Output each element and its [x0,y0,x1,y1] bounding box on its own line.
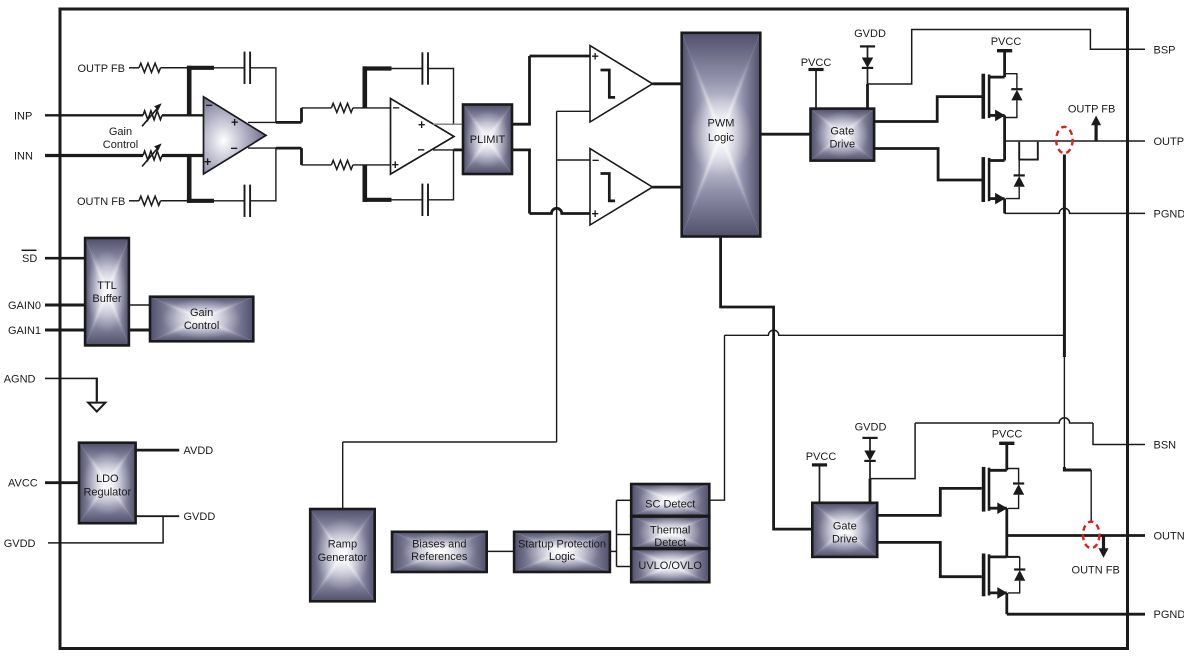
pin label PGND (top) [1154,208,1184,220]
node bar inverting input U1 [187,66,214,116]
wire Q4 drain extension [1007,556,1020,558]
pin label OUTP FB [78,63,125,75]
wire bottom feedback U1 [214,200,245,202]
svg-text:Gate: Gate [833,521,857,533]
wire PWM Logic to Gate Drive 2 route [721,237,813,530]
wire C2 to U1 output [250,148,276,201]
block Gate Drive (high/low side, OUTN) [812,503,877,557]
transistor Q2 (low-side NMOS, OUTP) [983,157,1005,204]
wire INN [45,154,143,157]
svg-text:Drive: Drive [829,139,855,151]
svg-text:GVDD: GVDD [4,538,36,550]
variable resistor INN (gain control) [142,143,162,166]
wire top feedback U1 [214,67,245,69]
capacitor C1 (U1 top feedback) [245,52,251,84]
resistor R4 (interstage bottom) [331,160,353,169]
svg-text:+: + [231,115,238,129]
svg-text:AVCC: AVCC [8,478,38,490]
wire D1 to gate drive 1 [867,68,869,109]
wire PGND top [1005,208,1145,213]
svg-text:+: + [204,155,211,169]
svg-text:BSN: BSN [1154,440,1177,452]
label OUTN FB (sense) [1072,565,1120,577]
pin label GAIN1 [8,325,41,337]
wire AVCC [45,481,80,484]
wire PWM Logic to Gate Drive 1 [760,133,811,136]
wire bootstrap BSP route [868,30,1146,85]
svg-text:SD: SD [22,253,37,265]
wire ramp to comparator A [557,110,599,112]
wire bottom feedback U2 [392,199,423,201]
block SC Detect [631,484,709,517]
resistor OUTP FB [139,63,161,72]
wire AGND [45,378,97,402]
pin label GVDD (left) [4,538,36,550]
svg-text:PVCC: PVCC [992,429,1023,441]
label PVCC (gate drive 2) [806,451,837,463]
capacitor C3 (U2 top feedback) [422,52,428,84]
pin label INN [14,151,33,163]
wire node OUTN [1007,534,1145,537]
svg-text:Gate: Gate [830,126,854,138]
wire C4 to U2 output [428,150,454,200]
wire gate drive 1 low output [874,149,981,181]
svg-text:OUTP: OUTP [1154,136,1184,148]
pin label BSP [1154,44,1176,56]
svg-text:GVDD: GVDD [854,28,886,40]
svg-text:OUTP FB: OUTP FB [78,63,125,75]
wire comparator A output [653,82,683,85]
svg-text:Biases and: Biases and [412,538,466,550]
svg-text:PLIMIT: PLIMIT [470,134,506,146]
svg-text:PVCC: PVCC [991,36,1022,48]
variable resistor INP (gain control) [142,103,162,126]
wire AVDD output [136,449,180,452]
block Biases and References [392,532,487,572]
wire to R3 [302,107,332,109]
comparator U4 (PWM comparator B) [590,149,653,225]
block TTL Buffer [85,238,129,345]
svg-text:INN: INN [14,151,33,163]
svg-text:SC Detect: SC Detect [645,498,695,510]
pin label OUTN [1154,531,1184,543]
wire U2 output+ to PLIMIT [433,123,464,125]
wire PGND bottom [1007,613,1145,616]
supply PVCC Q3 [999,443,1014,470]
label AVDD [184,445,214,457]
label GVDD (bottom) [855,421,887,433]
block UVLO/OVLO [631,516,709,582]
wire sense jog [1064,467,1091,470]
svg-text:−: − [393,101,400,115]
supply GVDD bottom [862,438,877,451]
wire ramp to comparator B [557,159,599,161]
pin label PGND (bottom) [1154,609,1184,621]
svg-text:Logic: Logic [549,551,576,563]
block PLIMIT [463,105,512,175]
wire OUTP FB to input node [161,67,188,69]
svg-text:−: − [231,141,238,155]
svg-text:Gain: Gain [190,307,213,319]
block LDO Regulator [79,443,136,524]
pin label AVCC [8,478,38,490]
svg-text:Control: Control [184,320,219,332]
wire TTL to Gain Control upper [129,304,151,306]
svg-text:OUTN FB: OUTN FB [1072,565,1120,577]
svg-text:PWM: PWM [708,118,735,130]
label OUTP FB (sense) [1068,104,1115,116]
svg-text:AGND: AGND [4,373,36,385]
label PVCC (high-side FET Q1) [991,36,1022,48]
wire PLIMIT out top [512,56,599,124]
label GVDD (top) [854,28,886,40]
wire top feedback U2 [392,68,423,70]
svg-text:−: − [206,99,213,113]
wire sense drop to OUTN [1090,470,1092,523]
label PVCC (gate drive 1) [801,57,832,69]
wire GAIN1 [45,329,86,332]
capacitor C2 (U1 bottom feedback) [245,185,251,217]
wire Q4 source to PGND [1005,593,1008,614]
svg-text:OUTN: OUTN [1154,531,1184,543]
comparator U3 (PWM comparator A) [590,46,653,122]
pin label INP [14,110,32,122]
svg-text:GVDD: GVDD [184,511,216,523]
op-amp U2 (second integrator stage) [391,99,455,175]
wire INN to op-amp [162,154,204,157]
svg-text:GAIN1: GAIN1 [8,325,41,337]
wire OUTN FB to input node [161,200,188,202]
supply PVCC gate drive 1 [808,70,823,109]
supply GVDD top [860,46,875,57]
label Gain Control (input stage) [103,126,138,151]
wire OUTN to Q4 drain [1005,536,1008,557]
resistor OUTN FB [139,196,161,205]
pin label OUTP [1154,136,1184,148]
svg-text:+: + [392,158,399,172]
svg-text:AVDD: AVDD [184,445,214,457]
capacitor C4 (U2 bottom feedback) [422,184,428,216]
svg-text:Logic: Logic [708,132,735,144]
test point ellipse OUTN [1083,522,1099,548]
wire comparator B output [653,186,683,189]
supply PVCC gate drive 2 [812,465,827,503]
transistor Q3 (high-side NMOS, OUTN) [984,467,1008,514]
svg-text:TTL: TTL [97,280,117,292]
wire SD [45,257,86,260]
body diode Q4 [1008,557,1025,593]
svg-text:Gain: Gain [109,126,132,138]
svg-text:PGND: PGND [1154,208,1184,220]
pin label SD [22,250,38,265]
svg-text:Regulator: Regulator [83,487,131,499]
pin label GAIN0 [8,300,41,312]
svg-text:PGND: PGND [1154,609,1184,621]
wire biases to startup [487,550,515,552]
wire gate drive 1 high output [874,97,981,122]
node bar non-inverting input U2 [363,165,392,202]
wire ramp vertical [556,111,558,442]
svg-text:Drive: Drive [832,534,858,546]
wire OUTN FB lead [129,200,139,202]
svg-text:PVCC: PVCC [801,57,832,69]
svg-text:GVDD: GVDD [855,421,887,433]
ground symbol AGND [88,403,105,412]
body diode Q3 [1007,469,1024,509]
wire D2 to gate drive 2 [869,461,871,503]
svg-text:UVLO/OVLO: UVLO/OVLO [638,560,702,572]
wire startup to detect bracket [610,550,617,552]
wire node OUTP [1005,140,1145,142]
pin label AGND [4,373,36,385]
block Ramp Generator [310,509,375,601]
label GVDD (LDO output) [184,511,216,523]
block Thermal Detect [631,516,709,549]
block Gate Drive (high/low side, OUTP) [811,109,875,161]
wire ramp drop to Ramp Generator [342,442,344,510]
transistor Q4 (low-side NMOS, OUTN) [984,554,1008,599]
wire detect bracket [617,500,632,566]
wire C1 to U1 output [250,68,276,123]
svg-text:+: + [592,207,599,221]
svg-text:−: − [418,143,425,157]
test point ellipse OUTP [1056,127,1072,153]
diode D2 (GVDD bootstrap) [864,451,875,461]
svg-text:Thermal: Thermal [650,525,690,537]
svg-text:BSP: BSP [1154,44,1176,56]
wire INP to op-amp [162,114,204,116]
wire GAIN0 [45,304,86,307]
wire OUTN FB sense arrow [1099,536,1109,558]
svg-text:OUTP FB: OUTP FB [1068,104,1115,116]
wire gate drive 2 high output [877,488,982,515]
node bar non-inverting input U1 [187,156,214,203]
wire bootstrap BSN route [870,418,1145,479]
pin label BSN [1154,440,1177,452]
svg-text:Control: Control [103,139,138,151]
label PVCC (high-side FET Q3) [992,429,1023,441]
wire PLIMIT out bottom [512,150,599,214]
transistor Q1 (high-side NMOS, OUTP) [983,74,1005,122]
pin label OUTN FB [77,196,125,208]
svg-text:+: + [418,118,425,132]
wire ramp horizontal [343,441,557,443]
wire gate drive 2 low output [877,542,982,576]
wire U1 output- jog [248,148,302,165]
wire GVDD output [136,515,180,517]
body diode Q1 [1005,74,1023,118]
op-amp U1 (input differential amplifier) [204,97,267,174]
supply PVCC Q1 [997,51,1012,77]
svg-text:Ramp: Ramp [328,538,357,550]
wire U2 output- to PLIMIT [433,149,464,151]
block Gain Control [150,297,253,342]
wire Q3 source to OUTN [1005,508,1008,535]
body diode Q2 [1006,160,1025,199]
wire U1 output+ jog [248,108,302,123]
wire OUTP FB sense arrow [1091,116,1101,142]
svg-text:GAIN0: GAIN0 [8,300,41,312]
node OUTP stub loop [1019,142,1038,160]
svg-text:Generator: Generator [318,552,368,564]
svg-text:PVCC: PVCC [806,451,837,463]
svg-text:Startup Protection: Startup Protection [518,538,606,550]
svg-text:−: − [592,154,599,168]
wire TTL to Gain Control lower [129,329,151,332]
svg-text:References: References [411,551,468,563]
wire OUTP FB lead [129,67,139,69]
wire INP [45,114,143,116]
wire OUTP sense vertical [1063,155,1066,468]
svg-text:INP: INP [14,110,32,122]
wire R4 to U2 [353,164,399,166]
svg-text:Buffer: Buffer [92,293,121,305]
block Startup Protection Logic [514,532,610,572]
resistor R3 (interstage top) [331,103,353,112]
wire to R4 [302,164,332,166]
wire Q1 source to Q2 drain [1003,115,1006,160]
wire Q2 source to PGND [1003,199,1006,214]
svg-text:LDO: LDO [96,473,119,485]
diode D1 (GVDD bootstrap) [862,58,873,68]
wire GVDD to pin [48,516,163,543]
svg-text:OUTN FB: OUTN FB [77,196,125,208]
node bar inverting input U2 [363,66,392,108]
wire C3 to U2 output [428,69,454,125]
svg-text:+: + [592,50,599,64]
wire SC Detect sense route [709,330,1064,500]
wire R3 to U2 [353,107,399,109]
block PWM Logic [682,33,761,237]
